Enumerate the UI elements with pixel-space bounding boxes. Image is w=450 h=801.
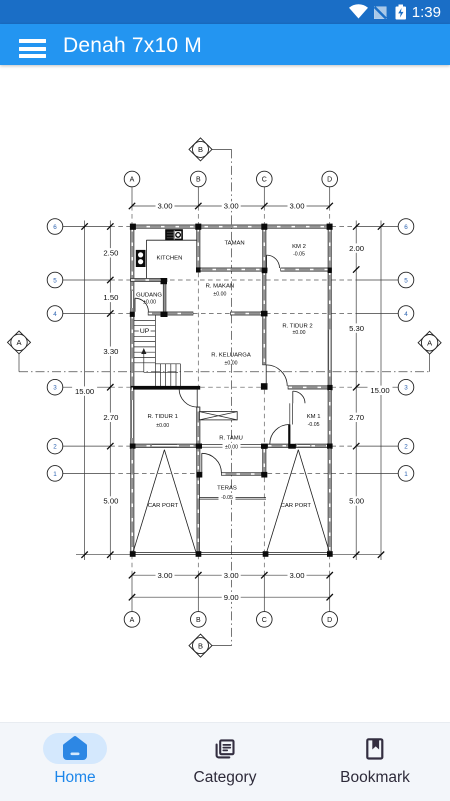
dimension lines xyxy=(76,206,381,597)
svg-text:-0.05: -0.05 xyxy=(293,252,305,258)
svg-text:2: 2 xyxy=(404,444,408,451)
svg-text:±0.00: ±0.00 xyxy=(225,360,238,366)
room labels xyxy=(136,241,320,510)
svg-text:4: 4 xyxy=(53,311,57,318)
grid bubbles top xyxy=(124,171,337,187)
category icon xyxy=(217,740,234,757)
svg-text:9.00: 9.00 xyxy=(224,593,239,602)
svg-text:KM 2: KM 2 xyxy=(292,244,306,250)
svg-text:GUDANG: GUDANG xyxy=(136,293,162,299)
center line vertical xyxy=(231,149,233,645)
svg-text:±0.00: ±0.00 xyxy=(293,330,306,336)
svg-text:5.00: 5.00 xyxy=(103,497,118,506)
svg-text:2.70: 2.70 xyxy=(103,413,118,422)
svg-text:KM 1: KM 1 xyxy=(307,414,321,420)
section marker B top xyxy=(189,138,232,161)
svg-text:C: C xyxy=(262,617,267,624)
km1 top wall xyxy=(288,386,331,389)
svg-text:R. KELUARGA: R. KELUARGA xyxy=(211,352,251,358)
no-signal icon xyxy=(375,8,386,19)
svg-text:-0.05: -0.05 xyxy=(308,422,320,428)
svg-text:15.00: 15.00 xyxy=(370,386,389,395)
status bar xyxy=(0,0,450,24)
svg-text:R. TIDUR 1: R. TIDUR 1 xyxy=(148,414,178,420)
km2 bottom wall xyxy=(281,268,332,271)
km1 big door to r.tamu xyxy=(270,425,290,445)
wall C teras right xyxy=(263,448,266,472)
svg-text:5.30: 5.30 xyxy=(349,324,364,333)
interior grid dashes xyxy=(134,273,328,552)
svg-text:1: 1 xyxy=(404,471,408,478)
app bar xyxy=(0,24,450,65)
kitchen counter xyxy=(145,240,147,278)
section line A-A horizontal xyxy=(19,371,430,373)
teras top wall xyxy=(221,473,261,476)
grid bubbles bottom xyxy=(124,612,337,628)
wall B lower (r.tidur1 right / teras left) xyxy=(197,407,200,477)
svg-text:TERAS: TERAS xyxy=(217,486,237,492)
svg-text:A: A xyxy=(427,339,432,348)
row connector lines right xyxy=(356,227,398,474)
svg-text:3: 3 xyxy=(53,385,57,392)
row4 wall right (r.makan bottom) xyxy=(231,312,267,315)
taman bottom wall xyxy=(197,268,268,271)
section marker B bottom xyxy=(189,634,232,657)
svg-text:3.00: 3.00 xyxy=(290,202,305,211)
plan bottom edge xyxy=(131,551,332,553)
svg-text:D: D xyxy=(327,177,332,184)
svg-text:3.30: 3.30 xyxy=(103,347,118,356)
svg-text:5.00: 5.00 xyxy=(349,497,364,506)
svg-text:3.00: 3.00 xyxy=(158,202,173,211)
r.tidur2 door xyxy=(265,365,267,386)
svg-text:CAR PORT: CAR PORT xyxy=(281,503,312,509)
row4 wall left xyxy=(148,312,193,315)
dimension labels xyxy=(72,201,392,602)
windows (white with double line) xyxy=(131,291,331,447)
svg-text:4: 4 xyxy=(404,311,408,318)
row connector lines left xyxy=(63,227,111,474)
columns xyxy=(130,224,333,557)
svg-text:-0.05: -0.05 xyxy=(221,495,233,501)
section marker A left xyxy=(8,331,31,372)
svg-text:TAMAN: TAMAN xyxy=(225,241,245,247)
row3 bold wall (r.tidur1 top) xyxy=(131,386,201,390)
left outer wall xyxy=(131,225,134,553)
wifi icon xyxy=(349,4,368,18)
svg-text:1: 1 xyxy=(53,471,57,478)
right outer wall D xyxy=(328,225,331,553)
svg-text:2.50: 2.50 xyxy=(103,249,118,258)
svg-text:5: 5 xyxy=(53,277,57,284)
white hatch marks on walls xyxy=(131,227,330,551)
svg-text:5: 5 xyxy=(404,277,408,284)
svg-text:KITCHEN: KITCHEN xyxy=(156,256,182,262)
svg-text:B: B xyxy=(196,617,201,624)
bottom navigation xyxy=(0,722,450,801)
doors xyxy=(135,255,305,473)
wall B upper (kitchen/taman) xyxy=(197,225,200,272)
bookmark icon xyxy=(367,739,382,758)
svg-text:15.00: 15.00 xyxy=(75,387,94,396)
svg-text:±0.00: ±0.00 xyxy=(156,423,169,429)
svg-text:±0.00: ±0.00 xyxy=(143,300,156,306)
dimension ticks xyxy=(81,203,384,601)
front door teras xyxy=(201,453,203,473)
svg-text:±0.00: ±0.00 xyxy=(225,445,238,451)
svg-text:C: C xyxy=(262,177,267,184)
svg-text:1.50: 1.50 xyxy=(103,293,118,302)
car port V lines xyxy=(133,450,329,552)
km2 door xyxy=(266,255,268,268)
svg-text:CAR PORT: CAR PORT xyxy=(148,503,179,509)
svg-text:3.00: 3.00 xyxy=(158,571,173,580)
row bubbles right xyxy=(398,219,414,482)
svg-text:A: A xyxy=(130,177,135,184)
section marker A right xyxy=(418,331,441,371)
r.tamu table xyxy=(199,412,237,420)
teras bottom edge xyxy=(199,496,266,498)
svg-text:3: 3 xyxy=(404,385,408,392)
grid stems top xyxy=(132,187,330,206)
gudang door xyxy=(134,298,136,312)
svg-text:3.00: 3.00 xyxy=(224,571,239,580)
row2 wall segments xyxy=(131,444,196,448)
km1 small door xyxy=(292,391,294,403)
svg-text:R. TAMU: R. TAMU xyxy=(219,436,243,442)
svg-text:A: A xyxy=(130,617,135,624)
svg-text:UP: UP xyxy=(140,328,150,335)
svg-text:D: D xyxy=(327,617,332,624)
svg-text:R. MAKAN: R. MAKAN xyxy=(206,283,234,289)
svg-text:±0.00: ±0.00 xyxy=(213,291,226,297)
gudang right wall xyxy=(163,282,166,312)
stairs xyxy=(134,315,180,386)
gudang top wall row5 xyxy=(131,278,167,281)
svg-text:2.70: 2.70 xyxy=(349,413,364,422)
svg-text:B: B xyxy=(196,177,201,184)
battery xyxy=(396,7,407,20)
kitchen sink unit xyxy=(136,250,146,267)
svg-text:6: 6 xyxy=(53,224,57,231)
svg-text:2.00: 2.00 xyxy=(349,244,364,253)
svg-text:3.00: 3.00 xyxy=(290,571,305,580)
grid stems bottom xyxy=(132,575,330,611)
top outer wall xyxy=(131,225,332,228)
kitchen stove unit xyxy=(165,229,183,240)
svg-text:A: A xyxy=(16,338,21,347)
svg-text:3.00: 3.00 xyxy=(224,202,239,211)
svg-text:6: 6 xyxy=(404,224,408,231)
km1 left wall (double thin) xyxy=(289,403,291,424)
r.tidur1 door xyxy=(196,389,198,407)
svg-text:B: B xyxy=(198,641,203,650)
row bubbles left xyxy=(47,219,63,482)
wall C (taman/km2 to r.keluarga) xyxy=(263,225,266,365)
svg-text:R. TIDUR 2: R. TIDUR 2 xyxy=(282,323,312,329)
svg-text:B: B xyxy=(198,145,203,154)
home icon (filled house) xyxy=(65,738,86,759)
svg-text:2: 2 xyxy=(53,444,57,451)
